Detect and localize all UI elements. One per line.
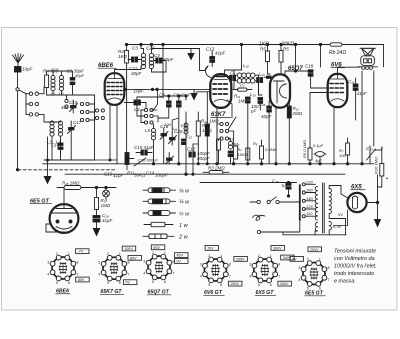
svg-text:1MΩ: 1MΩ [101, 203, 111, 208]
svg-text:1MΩ: 1MΩ [238, 99, 248, 104]
wire magic eye plate [63, 188, 65, 204]
pin label box socket3 top [151, 245, 165, 250]
svg-text:R3 2MΩ: R3 2MΩ [208, 166, 225, 171]
tube 6X5 envelope [347, 193, 366, 212]
wire mid bus y164 [43, 163, 375, 165]
socket 6E5 GT pins [298, 257, 329, 290]
wire T2 tops [234, 70, 242, 75]
svg-text:R5: R5 [283, 47, 289, 52]
pin label box socket3 right1 [175, 253, 189, 258]
wire AVC dashed bus [18, 169, 116, 171]
svg-text:4: 4 [249, 274, 251, 278]
svg-text:¼ w: ¼ w [179, 200, 190, 206]
svg-text:C9 40pF: C9 40pF [173, 93, 191, 98]
wire ground drop left [47, 160, 49, 177]
wire 6V6 plate to output transformer [338, 67, 360, 74]
wire T1 tops to bus [141, 45, 144, 54]
wire 6BE6 cathode drops [109, 104, 111, 160]
coil L3 [50, 121, 54, 136]
svg-text:5: 5 [152, 280, 154, 284]
capacitor electrolytic lens [314, 152, 326, 164]
svg-text:C₂₅: C₂₅ [272, 179, 279, 184]
svg-text:8: 8 [328, 266, 330, 270]
svg-text:L₆: L₆ [173, 126, 177, 131]
wire lower coil bottoms [47, 137, 49, 160]
speaker cone [360, 48, 376, 56]
pin label box socket4 bottom [229, 281, 243, 286]
svg-text:1: 1 [319, 257, 321, 261]
transformer HV secondary [329, 189, 331, 214]
resistor R11b horizontal [233, 88, 252, 91]
tube 65Q7 electrodes [274, 81, 287, 103]
switch lever [229, 117, 237, 129]
tube socket 65Q7 GT [148, 256, 170, 278]
svg-text:C14: C14 [146, 171, 155, 176]
svg-text:6: 6 [119, 281, 121, 285]
svg-text:265V: 265V [236, 257, 245, 261]
wire screen line 6V6 [310, 92, 328, 94]
svg-text:5: 5 [56, 281, 58, 285]
svg-text:10pF: 10pF [22, 67, 33, 72]
svg-text:7: 7 [328, 278, 330, 282]
capacitor C16b [258, 98, 263, 111]
svg-text:7: 7 [77, 272, 79, 276]
socket 65Q7 GT pins [143, 251, 174, 284]
svg-text:40pF: 40pF [131, 71, 142, 76]
svg-text:6: 6 [164, 280, 166, 284]
pin label box socket2 bottom [123, 280, 136, 285]
wire second grid line [196, 91, 210, 93]
node 295 junctions [294, 43, 296, 45]
svg-text:0.1μF: 0.1μF [313, 143, 324, 148]
trimmer C19 [70, 100, 78, 113]
pin label box socket4 top [205, 246, 219, 251]
svg-text:300V: 300V [273, 246, 282, 250]
capacitor C1 [70, 71, 75, 95]
transformer filament winding lower left [315, 223, 317, 231]
wire 6X5 down to ground [377, 203, 379, 220]
wire 6X5 plate feed [341, 194, 348, 198]
resistor R6b [260, 140, 264, 164]
wire AVC vertical from antenna [17, 91, 19, 170]
wire transformer left drop [361, 71, 363, 164]
svg-text:41pF: 41pF [113, 173, 124, 178]
node osc junctions [168, 95, 170, 97]
resistor R10 vertical [378, 147, 384, 187]
node bottom rail joints [109, 159, 111, 161]
tube 65Q7 envelope [270, 74, 290, 107]
socket 6V6 GT pins [200, 254, 231, 287]
wire switch row3 to lower coil [39, 114, 45, 122]
svg-text:5V: 5V [338, 212, 343, 217]
svg-text:C15 41pF: C15 41pF [134, 145, 154, 150]
svg-text:7: 7 [173, 271, 175, 275]
svg-text:1: 1 [164, 251, 166, 255]
tube 63K7 electrodes [213, 77, 229, 102]
svg-text:0.1MΩ: 0.1MΩ [265, 147, 277, 152]
tube 6BE6 envelope [105, 73, 125, 105]
pin label box socket4 right [234, 257, 248, 262]
pin label box socket6 left [290, 257, 304, 262]
svg-text:100: 100 [164, 122, 171, 127]
svg-text:50KΩ: 50KΩ [134, 173, 146, 178]
svg-text:40pF: 40pF [75, 73, 85, 78]
label underline 6V6 [331, 67, 346, 69]
svg-text:L2: L2 [59, 92, 65, 97]
coil L17 [228, 141, 232, 149]
trimmer C16b padder [166, 153, 174, 165]
wire 65Q7 plate junction drop [295, 45, 297, 72]
svg-text:C4: C4 [154, 53, 160, 58]
wire R4 to bus [126, 45, 128, 51]
svg-text:41pF: 41pF [357, 91, 368, 96]
wire R5b leads [280, 45, 282, 51]
tube socket 6V6 GT [204, 259, 226, 281]
svg-text:L₁₀: L₁₀ [250, 92, 256, 97]
tube socket 6E5 GT [303, 263, 325, 285]
tube 63K7 envelope [210, 74, 231, 108]
svg-text:5: 5 [208, 283, 210, 287]
wire grid line under first IF [124, 88, 210, 90]
svg-text:-7V: -7V [78, 250, 84, 254]
label underline 6X5 [351, 189, 366, 191]
wire osc block vertical x158 [154, 89, 158, 110]
svg-text:6,3V: 6,3V [333, 224, 342, 229]
resistor R7 vertical [346, 138, 350, 164]
svg-text:C₇: C₇ [240, 83, 245, 88]
socket 6BE6 internals [59, 262, 67, 274]
tube socket 6BE6 [52, 257, 74, 279]
svg-text:2: 2 [307, 257, 309, 261]
svg-text:6: 6 [220, 283, 222, 287]
wire HV center tap [329, 214, 345, 219]
svg-text:L5: L5 [145, 128, 151, 133]
band switch S1a contacts [26, 92, 39, 116]
svg-text:C10: C10 [51, 143, 60, 148]
svg-text:1: 1 [270, 254, 272, 258]
ground near C13 [188, 49, 200, 60]
wire top bus right of Rb to speaker corner [342, 45, 384, 67]
socket 6V6 GT internals [211, 264, 220, 276]
IF transformer T1 secondary coil [149, 53, 153, 68]
svg-text:1μF: 1μF [281, 183, 288, 188]
wire left grid rail to tube [94, 95, 96, 160]
svg-text:41μF: 41μF [102, 218, 112, 223]
svg-text:R₁₆ 1MΩ: R₁₆ 1MΩ [62, 181, 80, 186]
svg-text:R5: R5 [260, 47, 266, 52]
wire pot link right [374, 149, 382, 151]
label socket 6V6 GT [204, 290, 225, 296]
wire middle vertical x172 [171, 120, 173, 132]
pin label box socket2 right [128, 255, 142, 260]
resistor R3 2M horizontal [203, 171, 229, 175]
wire bottom line left end tick [282, 232, 284, 235]
socket 65K7 GT internals [110, 262, 118, 274]
socket 6X5 GT internals [261, 264, 270, 276]
wire osc verticals [153, 140, 155, 164]
svg-text:3: 3 [143, 259, 145, 263]
svg-text:7: 7 [128, 273, 130, 277]
svg-text:3: 3 [98, 261, 100, 265]
wire 63K7 screen tap [227, 100, 232, 118]
socket 65K7 GT pins [98, 252, 129, 285]
resistor R5 1K [266, 51, 270, 62]
svg-text:8: 8 [229, 262, 231, 266]
node antenna terminal [16, 88, 19, 91]
wire C21 bottom drop [355, 96, 357, 120]
socket 65Q7 GT internals [155, 261, 163, 273]
legend resistor 1/4W [143, 199, 176, 204]
svg-text:3: 3 [47, 260, 49, 264]
svg-text:C3: C3 [132, 46, 138, 51]
capacitor C12 [189, 152, 195, 157]
wire pot tap [129, 158, 134, 160]
capacitor C6 [257, 78, 263, 83]
svg-text:7: 7 [278, 274, 280, 278]
wire 6X5 cathode out [367, 175, 378, 203]
band switch S1b contacts [65, 95, 68, 108]
svg-text:4: 4 [143, 271, 145, 275]
wire right edge drop [381, 147, 383, 150]
wire transformer right drop [373, 71, 375, 146]
svg-text:1KΩ: 1KΩ [118, 54, 128, 59]
wire lower coil top rail [44, 121, 61, 122]
svg-text:C13: C13 [206, 47, 215, 52]
svg-text:3: 3 [298, 266, 300, 270]
node dashed bus joint [16, 169, 18, 171]
svg-text:40pF: 40pF [261, 114, 272, 119]
capacitor C9 [177, 96, 182, 112]
svg-text:110: 110 [306, 211, 313, 216]
pin label box socket1 bottom [76, 277, 90, 282]
coil L6 [184, 123, 188, 134]
wire R5 leads [267, 45, 269, 52]
wire transformer bottoms [315, 231, 318, 235]
trimmer C20b [169, 132, 177, 145]
wire magic eye cathode down [46, 224, 64, 232]
capacitor C18 coupling [308, 70, 313, 80]
svg-text:70V: 70V [207, 246, 214, 250]
pin label box socket5 top [271, 246, 285, 251]
wire B+ top bus [125, 44, 330, 46]
svg-text:4: 4 [200, 274, 202, 278]
ground magic eye [93, 229, 99, 236]
svg-text:2V: 2V [292, 257, 297, 261]
svg-text:10pF: 10pF [134, 89, 145, 94]
resistor Rb 24 ohm on B+ line [330, 43, 342, 46]
socket 6E5 GT internals [310, 268, 318, 280]
wire L5 top [153, 124, 155, 128]
node R17 top junction [95, 186, 97, 188]
capacitor C15 [136, 150, 152, 155]
pin label box socket2 top [122, 246, 136, 251]
wire coil bottoms to bus [47, 88, 95, 96]
resistor R5b 20K [279, 51, 283, 63]
pin label box socket5 bottom [278, 281, 292, 286]
capacitor CA [15, 67, 22, 73]
node R5 top [266, 43, 268, 45]
svg-text:e massa.: e massa. [334, 279, 356, 285]
svg-text:45V: 45V [177, 254, 184, 258]
svg-text:C17: C17 [73, 120, 82, 125]
capacitor C5 [230, 76, 236, 81]
svg-text:C19: C19 [69, 100, 78, 105]
svg-text:1MΩ: 1MΩ [209, 119, 219, 124]
wire osc switch rail [137, 97, 163, 116]
coil L1 [51, 75, 55, 90]
legend resistor 1/8W [143, 188, 176, 193]
label underline 6E5 [30, 203, 53, 205]
antenna [13, 54, 24, 67]
svg-text:trodo interessato: trodo interessato [334, 271, 374, 277]
label socket 65Q7 GT [147, 290, 171, 296]
node middle joints [206, 163, 208, 165]
svg-text:220: 220 [305, 179, 313, 184]
capacitor C21 [353, 78, 358, 96]
svg-text:2: 2 [152, 251, 154, 255]
svg-text:0V: 0V [125, 281, 130, 285]
svg-text:R6 0.1MΩ: R6 0.1MΩ [302, 140, 307, 158]
power switch [250, 197, 300, 204]
wire pot to bus [126, 165, 128, 170]
tube 6V6 electrodes [330, 74, 345, 101]
pin label box socket6 top [308, 247, 322, 252]
resistor R12 [287, 101, 291, 164]
output transformer mount line [358, 66, 378, 68]
node T2 top junction [240, 43, 242, 45]
IF transformer T2 primary [237, 73, 255, 78]
svg-text:R₆: R₆ [253, 141, 258, 146]
label underline 63K7 [211, 116, 232, 118]
svg-text:C20: C20 [146, 46, 155, 51]
svg-text:5: 5 [258, 283, 260, 287]
wire osc block link [152, 109, 158, 111]
capacitor C2 [124, 100, 146, 105]
mains lower terminal [257, 230, 299, 233]
wire B+ drop to 65Q7 area [320, 45, 322, 68]
svg-text:⅛ w: ⅛ w [179, 189, 190, 195]
svg-text:4: 4 [98, 273, 100, 277]
tube 6V6 envelope [328, 74, 348, 107]
wire bus y174 [65, 173, 345, 175]
svg-text:8: 8 [77, 260, 79, 264]
wire left rail bottom joint [95, 159, 118, 161]
IF transformer T1 primary coil [141, 53, 145, 68]
wire osc section feed [162, 45, 164, 99]
pin label box socket1 top [76, 249, 90, 254]
legend resistor 1/2W [143, 211, 176, 216]
wire T1 secondary bottom to grid line [152, 61, 167, 73]
svg-text:Tensioni misurate: Tensioni misurate [334, 249, 376, 255]
output transformer secondary loops [362, 67, 373, 69]
svg-text:100: 100 [339, 153, 346, 158]
svg-text:1: 1 [68, 252, 70, 256]
svg-text:2: 2 [56, 252, 58, 256]
wire T2 bottoms [234, 81, 237, 90]
svg-text:2: 2 [208, 254, 210, 258]
transformer filament secondary [329, 222, 331, 230]
wire across top to right [152, 48, 200, 50]
oscillator switch contacts [141, 108, 153, 124]
node grid line dots [151, 88, 153, 90]
label socket 6X5 GT [255, 290, 276, 296]
svg-text:C₂₃: C₂₃ [366, 146, 373, 151]
coil L4 [58, 121, 62, 136]
svg-text:1 w: 1 w [179, 223, 189, 229]
svg-text:C₂₁: C₂₁ [348, 79, 355, 84]
svg-text:160: 160 [306, 188, 313, 193]
capacitor C25 [286, 183, 291, 197]
label socket 6BE6 [56, 289, 71, 295]
pot C23 tone arrow [367, 146, 376, 164]
IF transformer T2 secondary [237, 79, 255, 84]
capacitor C13 [210, 51, 215, 67]
svg-text:140: 140 [306, 196, 313, 201]
resistor R13 [196, 121, 200, 136]
svg-text:462: 462 [61, 105, 69, 110]
svg-text:1000Ω/V fra l'elet,: 1000Ω/V fra l'elet, [334, 264, 377, 270]
svg-text:L₁₀: L₁₀ [243, 63, 249, 68]
resistor R6 vertical [308, 148, 312, 164]
resistor R4b [217, 139, 221, 164]
svg-text:0V: 0V [177, 260, 182, 264]
resistor R4 [125, 51, 129, 64]
wire L17 top joint [229, 131, 234, 141]
wire 63K7 cathode down [216, 107, 218, 164]
capacitor C10 [58, 140, 63, 155]
wire osc top rail [163, 96, 186, 100]
label socket 6E5 GT [305, 291, 326, 297]
svg-text:41pF: 41pF [215, 51, 226, 56]
transformer core [323, 183, 325, 233]
wire 65Q7 plate up [285, 71, 311, 76]
svg-text:2: 2 [258, 254, 260, 258]
transformer tap terminals [302, 183, 315, 218]
svg-text:100pF: 100pF [155, 173, 168, 178]
node right bus junctions [309, 163, 311, 165]
pin label box socket5 right [281, 255, 295, 260]
mains plug squiggle [253, 215, 266, 220]
coil L5 oscillator [151, 128, 155, 140]
wire band switch common rail [25, 94, 27, 115]
wire 63K7 grid resistor drop [206, 92, 208, 118]
wire 6V6 cathode down [333, 107, 335, 164]
pin label box socket3 right2 [175, 259, 189, 264]
svg-text:C15: C15 [104, 172, 113, 177]
svg-text:100V: 100V [124, 247, 133, 251]
svg-text:400pF: 400pF [197, 156, 210, 161]
svg-text:7: 7 [229, 274, 231, 278]
svg-text:40pF: 40pF [163, 57, 174, 62]
legend resistor 2W [143, 234, 174, 239]
resistor R9 [205, 118, 209, 164]
svg-text:C₂₂: C₂₂ [186, 134, 192, 139]
ground power [375, 220, 381, 227]
svg-text:3: 3 [249, 262, 251, 266]
wire tone switch right rail [229, 139, 231, 142]
wire R4 bottom [126, 63, 128, 164]
wire coil tops [52, 71, 54, 75]
capacitor C4 [154, 58, 166, 63]
svg-text:4: 4 [47, 272, 49, 276]
svg-text:con Voltmetro da: con Voltmetro da [334, 256, 375, 262]
svg-text:8: 8 [278, 262, 280, 266]
dial lamp [103, 188, 110, 201]
wire from R13 top [193, 143, 198, 145]
svg-text:C16 600pF: C16 600pF [138, 158, 158, 163]
svg-text:2MΩ: 2MΩ [292, 111, 303, 116]
capacitor C26 [93, 216, 100, 229]
